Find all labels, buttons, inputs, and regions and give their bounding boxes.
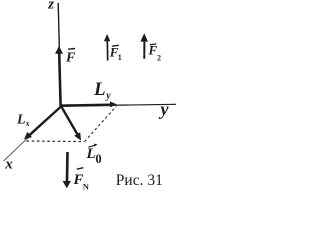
svg-text:L: L: [93, 79, 106, 100]
svg-text:y: y: [159, 99, 170, 119]
svg-text:F: F: [148, 43, 158, 58]
x axis: [4, 107, 62, 162]
force Fn arrow (down): [66, 152, 69, 181]
svg-text:z: z: [47, 0, 54, 12]
svg-text:L: L: [86, 146, 96, 162]
label Fn: [77, 168, 84, 170]
vector L_y along y: [61, 104, 111, 107]
svg-text:0: 0: [95, 152, 101, 166]
svg-text:x: x: [25, 119, 30, 128]
dashed projection line (horizontal): [27, 140, 85, 143]
svg-text:x: x: [4, 157, 13, 173]
z axis: [58, 3, 61, 106]
label F1: [112, 44, 119, 47]
svg-text:F: F: [65, 51, 76, 66]
force F1 arrow: [106, 41, 108, 61]
dashed projection line (diagonal): [85, 106, 117, 141]
svg-text:Рис. 31: Рис. 31: [116, 172, 163, 189]
vector L_0 (diagonal of parallelogram): [61, 106, 78, 135]
label L_0 with vector arrow: [89, 145, 97, 147]
vector L_x along x: [30, 107, 62, 136]
svg-text:y: y: [105, 90, 111, 101]
force F2 arrow: [143, 41, 145, 59]
label F bar (on z axis): [68, 48, 75, 51]
label F2: [150, 43, 156, 46]
svg-text:1: 1: [118, 53, 122, 62]
svg-text:L: L: [16, 113, 26, 128]
y axis: [61, 104, 176, 106]
svg-text:N: N: [83, 182, 90, 192]
vector F up along z (force F): [59, 53, 60, 107]
svg-text:2: 2: [157, 53, 161, 62]
